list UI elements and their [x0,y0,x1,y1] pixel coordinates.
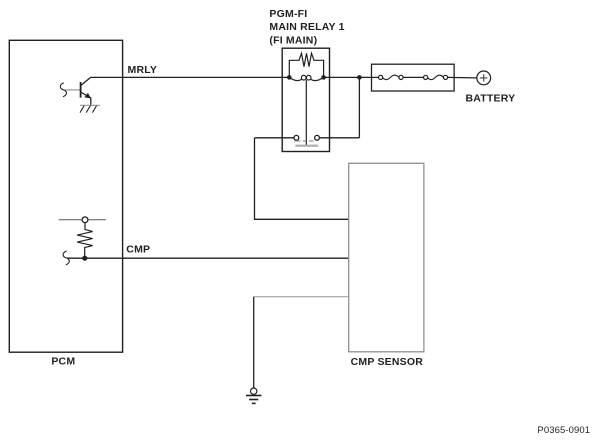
svg-text:CMP SENSOR: CMP SENSOR [351,356,424,368]
wire ground drop [253,297,255,388]
pull-up supply line in PCM [59,219,106,221]
relay coil L1 [289,75,323,80]
svg-text:CMP: CMP [126,244,150,256]
wire inside fuse box [372,76,379,78]
node: coil right junction [321,75,326,80]
resistor R1 (pull-up) [77,223,92,259]
node CMP junction dot [82,256,87,261]
svg-text:PCM: PCM [51,356,75,368]
relay K1 box [282,48,329,151]
transistor Q1 collector [81,77,91,85]
svg-text:MAIN RELAY 1: MAIN RELAY 1 [269,21,344,33]
transistor Q1 emitter [81,92,91,105]
relay contact bar [295,145,318,147]
wire MRLY from Q1 collector to relay [91,76,290,78]
battery terminal circle [477,71,491,85]
fuse box [372,64,455,91]
battery plus sign [480,74,487,81]
pull-up terminal circle [82,217,88,223]
relay resistor branch [289,53,323,77]
CMP wire squiggle (wire break) [63,251,69,265]
node: coil left junction [287,75,292,80]
transistor Q1 base wire [65,89,81,91]
svg-text:(FI MAIN): (FI MAIN) [269,34,317,46]
relay switch right contact [315,135,320,140]
relay switch right wire [319,137,359,139]
relay switch left wire [255,137,295,139]
transistor Q1 base bar [80,82,82,98]
wire relay switch left down and to CMP sensor [255,138,349,220]
wire between fuses [403,76,423,78]
fuse F1 [379,75,404,79]
wire from coil out to fuse box [324,76,372,78]
transistor Q1 base squiggle (wire break) [60,83,66,97]
wire CMP sensor ground (gray horizontal) [254,296,349,298]
svg-text:PGM-FI: PGM-FI [269,8,307,20]
wire junction down to switch [358,77,360,137]
svg-text:BATTERY: BATTERY [466,93,516,105]
relay armature link [305,80,307,146]
ground G101 [246,388,261,403]
PCM box [9,40,122,352]
wire fuse box to battery [448,76,477,79]
fuse F2 [424,75,448,79]
svg-text:MRLY: MRLY [128,64,158,76]
CMP sensor box [349,163,424,351]
chassis ground under Q1 [80,105,100,112]
svg-text:P0365-0901: P0365-0901 [537,425,590,436]
transistor Q1 emitter arrowhead [84,93,91,99]
node: battery feed junction [357,75,362,80]
relay switch left contact [294,135,299,140]
relay movable contact marks [295,140,314,142]
wire CMP from PCM to CMP sensor [67,257,349,259]
